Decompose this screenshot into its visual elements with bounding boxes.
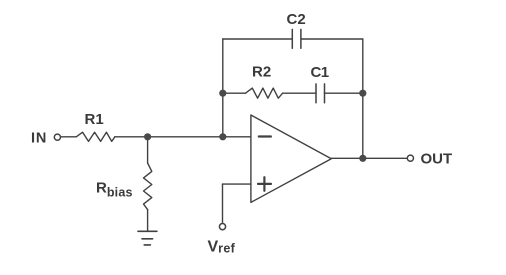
wire top feedback right of C2 <box>301 38 363 40</box>
wire R1 to op-amp inverting input <box>115 136 251 138</box>
resistor R2 <box>246 88 283 98</box>
node: junction dot left of R2 <box>219 90 226 97</box>
node: junction dot right of C1 <box>359 90 366 97</box>
wire right feedback vertical <box>362 39 364 158</box>
node: junction dot output <box>359 155 366 162</box>
capacitor C2 <box>292 29 301 48</box>
svg-text:IN: IN <box>31 130 47 146</box>
wire left feedback vertical <box>222 39 224 137</box>
wire op-amp noninverting input <box>223 183 251 185</box>
wire top feedback left of C2 <box>223 38 292 40</box>
wire middle branch left <box>223 92 246 94</box>
resistor Rbias <box>144 163 152 210</box>
wire R2 to C1 <box>283 92 316 94</box>
wire IN terminal to R1 <box>61 136 77 138</box>
IN terminal circle <box>54 134 60 140</box>
svg-text:R1: R1 <box>85 111 104 128</box>
Vref terminal circle <box>219 224 225 230</box>
OUT terminal circle <box>407 155 413 161</box>
wire op-amp output to OUT terminal <box>331 157 407 159</box>
capacitor C1 <box>316 84 325 103</box>
svg-text:C2: C2 <box>287 11 306 28</box>
svg-text:Vref: Vref <box>208 238 236 255</box>
node: junction dot inverting input <box>219 133 226 140</box>
wire C1 to right junction <box>325 92 363 94</box>
node: junction dot R1/Rbias <box>144 133 151 140</box>
svg-text:Rbias: Rbias <box>96 180 133 200</box>
resistor R1 <box>76 132 115 141</box>
ground <box>138 231 157 245</box>
wire Rbias top <box>147 137 149 163</box>
svg-text:OUT: OUT <box>421 151 453 168</box>
svg-text:R2: R2 <box>252 64 271 81</box>
svg-text:C1: C1 <box>311 64 329 81</box>
wire Vref vertical <box>222 184 224 223</box>
op-amp minus sign <box>259 135 271 137</box>
op-amp U1 <box>251 115 331 202</box>
wire Rbias to ground <box>147 210 149 232</box>
op-amp plus sign <box>258 177 271 191</box>
